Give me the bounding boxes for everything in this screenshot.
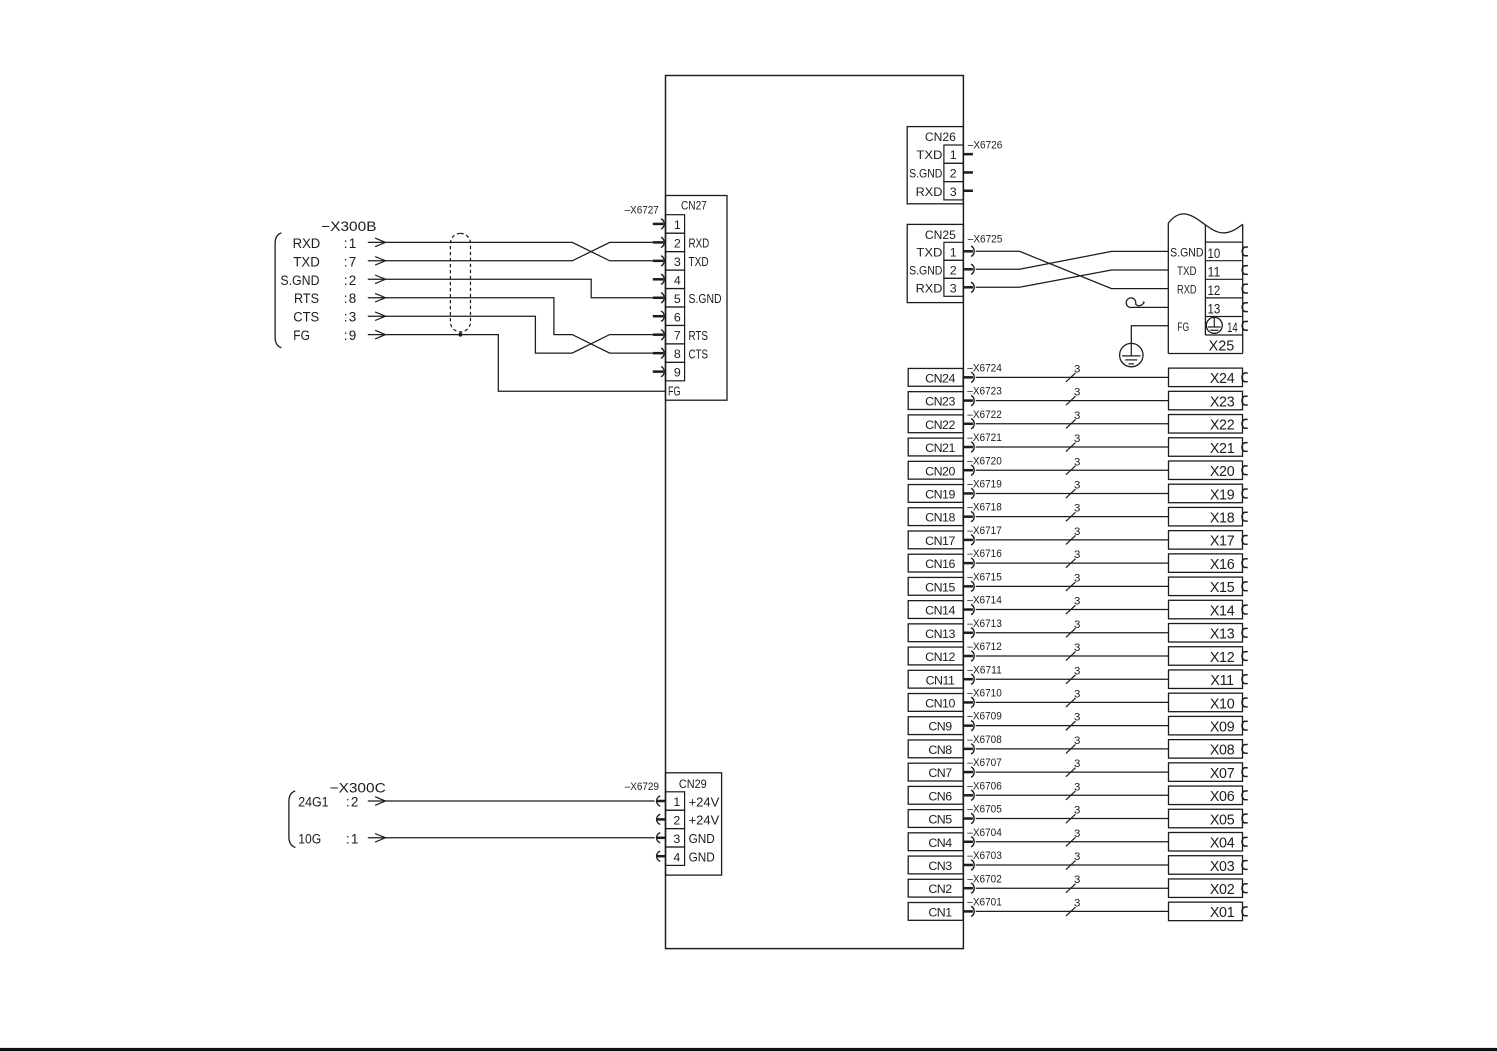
svg-text:–X6727: –X6727 <box>625 204 659 216</box>
svg-text:X09: X09 <box>1210 720 1235 736</box>
svg-text:CTS: CTS <box>293 310 319 325</box>
svg-text:CN3: CN3 <box>928 859 952 873</box>
svg-text:3: 3 <box>1074 456 1080 468</box>
svg-text:RXD: RXD <box>293 236 321 251</box>
svg-text:10: 10 <box>1208 246 1221 261</box>
svg-text:1: 1 <box>673 795 680 809</box>
svg-text:4: 4 <box>673 850 680 864</box>
svg-text:7: 7 <box>674 329 681 343</box>
svg-text:–X6704: –X6704 <box>967 827 1002 839</box>
svg-text::1: :1 <box>344 236 358 251</box>
svg-text:–X6702: –X6702 <box>967 873 1002 885</box>
svg-text:CN27: CN27 <box>681 198 707 212</box>
svg-text:CN13: CN13 <box>925 627 955 641</box>
svg-text:–X6722: –X6722 <box>967 409 1002 421</box>
svg-text:13: 13 <box>1208 302 1221 317</box>
svg-text:3: 3 <box>1074 712 1080 724</box>
svg-text:X25: X25 <box>1209 339 1235 355</box>
svg-text:CN7: CN7 <box>928 766 952 780</box>
svg-text:5: 5 <box>674 292 681 306</box>
svg-text:3: 3 <box>1074 898 1080 910</box>
svg-text:3: 3 <box>1074 549 1080 561</box>
svg-text:3: 3 <box>1074 410 1080 422</box>
svg-text:X06: X06 <box>1210 789 1235 805</box>
svg-text:3: 3 <box>1074 805 1080 817</box>
svg-text:–X6712: –X6712 <box>967 641 1002 653</box>
svg-text:TXD: TXD <box>916 245 942 259</box>
svg-text:3: 3 <box>1074 387 1080 399</box>
svg-text:3: 3 <box>1074 689 1080 701</box>
svg-text:RXD: RXD <box>916 185 943 199</box>
svg-text::8: :8 <box>344 291 358 306</box>
svg-text:X05: X05 <box>1210 812 1235 828</box>
svg-text:2: 2 <box>674 236 681 250</box>
svg-text:CN24: CN24 <box>925 371 955 385</box>
svg-text:–X6724: –X6724 <box>967 362 1002 374</box>
svg-text:X11: X11 <box>1210 673 1234 689</box>
svg-text:3: 3 <box>1074 851 1080 863</box>
svg-text:GND: GND <box>689 831 715 846</box>
svg-text:CN1: CN1 <box>928 906 952 920</box>
svg-text:3: 3 <box>1074 735 1080 747</box>
svg-text:–X6713: –X6713 <box>967 618 1002 630</box>
svg-text::9: :9 <box>344 328 358 343</box>
svg-text:CN16: CN16 <box>925 557 955 571</box>
svg-text:–X6705: –X6705 <box>967 804 1002 816</box>
svg-text:24G1: 24G1 <box>298 795 328 810</box>
svg-text:CN29: CN29 <box>679 777 707 791</box>
svg-text:X23: X23 <box>1210 394 1235 410</box>
svg-text:X14: X14 <box>1210 603 1235 619</box>
svg-text:3: 3 <box>1074 619 1080 631</box>
svg-text:3: 3 <box>1074 596 1080 608</box>
svg-text:CN10: CN10 <box>925 697 955 711</box>
svg-text:TXD: TXD <box>916 148 942 162</box>
svg-text:3: 3 <box>1074 363 1080 375</box>
svg-text:3: 3 <box>673 832 680 846</box>
svg-text:–X6720: –X6720 <box>967 455 1002 467</box>
svg-text:X01: X01 <box>1210 905 1235 921</box>
svg-text:2: 2 <box>673 814 680 828</box>
svg-text:1: 1 <box>674 218 681 232</box>
svg-text:–X6709: –X6709 <box>967 711 1002 723</box>
svg-text:S.GND: S.GND <box>689 291 722 306</box>
svg-text:3: 3 <box>1074 828 1080 840</box>
svg-text:X21: X21 <box>1210 441 1235 457</box>
svg-text:–X6715: –X6715 <box>967 571 1002 583</box>
svg-text:–X6708: –X6708 <box>967 734 1002 746</box>
svg-text:1: 1 <box>950 148 957 162</box>
svg-text:–X6726: –X6726 <box>968 140 1003 152</box>
svg-text::2: :2 <box>346 795 360 810</box>
svg-text:11: 11 <box>1208 265 1221 280</box>
svg-text:X20: X20 <box>1210 464 1235 480</box>
svg-text:S.GND: S.GND <box>909 263 942 277</box>
svg-text:–X6714: –X6714 <box>967 595 1002 607</box>
svg-text:RXD: RXD <box>1177 283 1197 297</box>
svg-text:CN12: CN12 <box>925 650 955 664</box>
svg-text:S.GND: S.GND <box>1170 246 1203 260</box>
svg-text:X24: X24 <box>1210 371 1235 387</box>
svg-text:+24V: +24V <box>689 794 720 809</box>
svg-text:2: 2 <box>950 167 957 181</box>
svg-text:3: 3 <box>1074 758 1080 770</box>
svg-text:–X6701: –X6701 <box>967 897 1002 909</box>
svg-text::2: :2 <box>344 273 358 288</box>
svg-text:S.GND: S.GND <box>909 167 942 181</box>
svg-text:–X6711: –X6711 <box>967 664 1002 676</box>
svg-text:3: 3 <box>1074 503 1080 515</box>
svg-text:CN15: CN15 <box>925 580 955 594</box>
svg-text:TXD: TXD <box>1177 264 1197 278</box>
svg-text:FG: FG <box>668 383 681 398</box>
svg-text:−X300C: −X300C <box>330 779 386 795</box>
svg-text:–X6706: –X6706 <box>967 780 1002 792</box>
svg-text:X12: X12 <box>1210 650 1235 666</box>
svg-text:CN25: CN25 <box>925 228 956 242</box>
svg-text:RTS: RTS <box>294 291 319 306</box>
svg-text:X18: X18 <box>1210 511 1235 527</box>
svg-text:8: 8 <box>674 347 681 361</box>
svg-text:CN17: CN17 <box>925 534 955 548</box>
svg-text:3: 3 <box>950 185 957 199</box>
svg-text:–X6717: –X6717 <box>967 525 1002 537</box>
svg-text:3: 3 <box>674 255 681 269</box>
svg-text:3: 3 <box>1074 642 1080 654</box>
svg-text:3: 3 <box>1074 572 1080 584</box>
svg-text:CN26: CN26 <box>925 130 956 144</box>
svg-text:TXD: TXD <box>293 254 320 269</box>
svg-text:4: 4 <box>674 273 681 287</box>
svg-text:–X6723: –X6723 <box>967 386 1002 398</box>
svg-text:CN21: CN21 <box>925 441 955 455</box>
svg-text:X03: X03 <box>1210 859 1235 875</box>
svg-text:CN6: CN6 <box>928 789 952 803</box>
svg-text:CN4: CN4 <box>928 836 952 850</box>
svg-text:TXD: TXD <box>689 254 709 269</box>
svg-text:3: 3 <box>950 281 957 295</box>
svg-text:X22: X22 <box>1210 418 1235 434</box>
svg-text:X13: X13 <box>1210 627 1235 643</box>
svg-text:10G: 10G <box>298 831 321 846</box>
svg-text:X10: X10 <box>1210 696 1235 712</box>
svg-text::7: :7 <box>344 254 358 269</box>
svg-text:3: 3 <box>1074 781 1080 793</box>
svg-text:CN11: CN11 <box>926 673 955 687</box>
svg-text:–X6716: –X6716 <box>967 548 1002 560</box>
svg-text:X02: X02 <box>1210 882 1235 898</box>
svg-text:+24V: +24V <box>689 813 720 828</box>
svg-text:CN9: CN9 <box>928 720 952 734</box>
svg-text:9: 9 <box>674 366 681 380</box>
svg-text:–X6725: –X6725 <box>968 233 1003 245</box>
svg-text:–X6707: –X6707 <box>967 757 1002 769</box>
svg-text:X15: X15 <box>1210 580 1235 596</box>
svg-text:3: 3 <box>1074 480 1080 492</box>
svg-text:3: 3 <box>1074 874 1080 886</box>
svg-text:CN5: CN5 <box>928 813 952 827</box>
svg-text:6: 6 <box>674 310 681 324</box>
svg-text:CN22: CN22 <box>925 418 955 432</box>
svg-text:–X6703: –X6703 <box>967 850 1002 862</box>
svg-text:CN18: CN18 <box>925 511 955 525</box>
svg-text:3: 3 <box>1074 665 1080 677</box>
svg-text:–X6719: –X6719 <box>967 479 1002 491</box>
svg-text:2: 2 <box>950 263 957 277</box>
svg-text:CTS: CTS <box>689 346 709 361</box>
svg-text::3: :3 <box>344 310 358 325</box>
svg-text:1: 1 <box>950 245 957 259</box>
svg-text:3: 3 <box>1074 526 1080 538</box>
svg-text::1: :1 <box>346 831 360 846</box>
svg-text:−X300B: −X300B <box>321 218 376 234</box>
svg-text:FG: FG <box>1177 320 1189 334</box>
svg-text:X16: X16 <box>1210 557 1235 573</box>
svg-text:X19: X19 <box>1210 487 1235 503</box>
svg-text:FG: FG <box>293 328 310 343</box>
svg-text:CN8: CN8 <box>928 743 952 757</box>
svg-text:3: 3 <box>1074 433 1080 445</box>
svg-text:GND: GND <box>689 850 715 865</box>
svg-text:CN2: CN2 <box>928 882 952 896</box>
svg-text:CN23: CN23 <box>925 395 955 409</box>
svg-text:X04: X04 <box>1210 836 1235 852</box>
svg-text:CN14: CN14 <box>925 604 955 618</box>
svg-text:–X6729: –X6729 <box>625 781 659 793</box>
svg-text:CN20: CN20 <box>925 464 955 478</box>
svg-text:RTS: RTS <box>689 328 709 343</box>
svg-text:CN19: CN19 <box>925 488 955 502</box>
svg-text:X08: X08 <box>1210 743 1235 759</box>
svg-text:14: 14 <box>1227 320 1238 335</box>
svg-text:–X6710: –X6710 <box>967 688 1002 700</box>
svg-text:12: 12 <box>1208 283 1221 298</box>
svg-text:–X6718: –X6718 <box>967 502 1002 514</box>
svg-text:X17: X17 <box>1210 534 1235 550</box>
svg-text:–X6721: –X6721 <box>967 432 1002 444</box>
svg-text:S.GND: S.GND <box>280 273 319 288</box>
svg-text:RXD: RXD <box>689 236 710 251</box>
svg-text:X07: X07 <box>1210 766 1235 782</box>
svg-text:RXD: RXD <box>916 281 943 295</box>
